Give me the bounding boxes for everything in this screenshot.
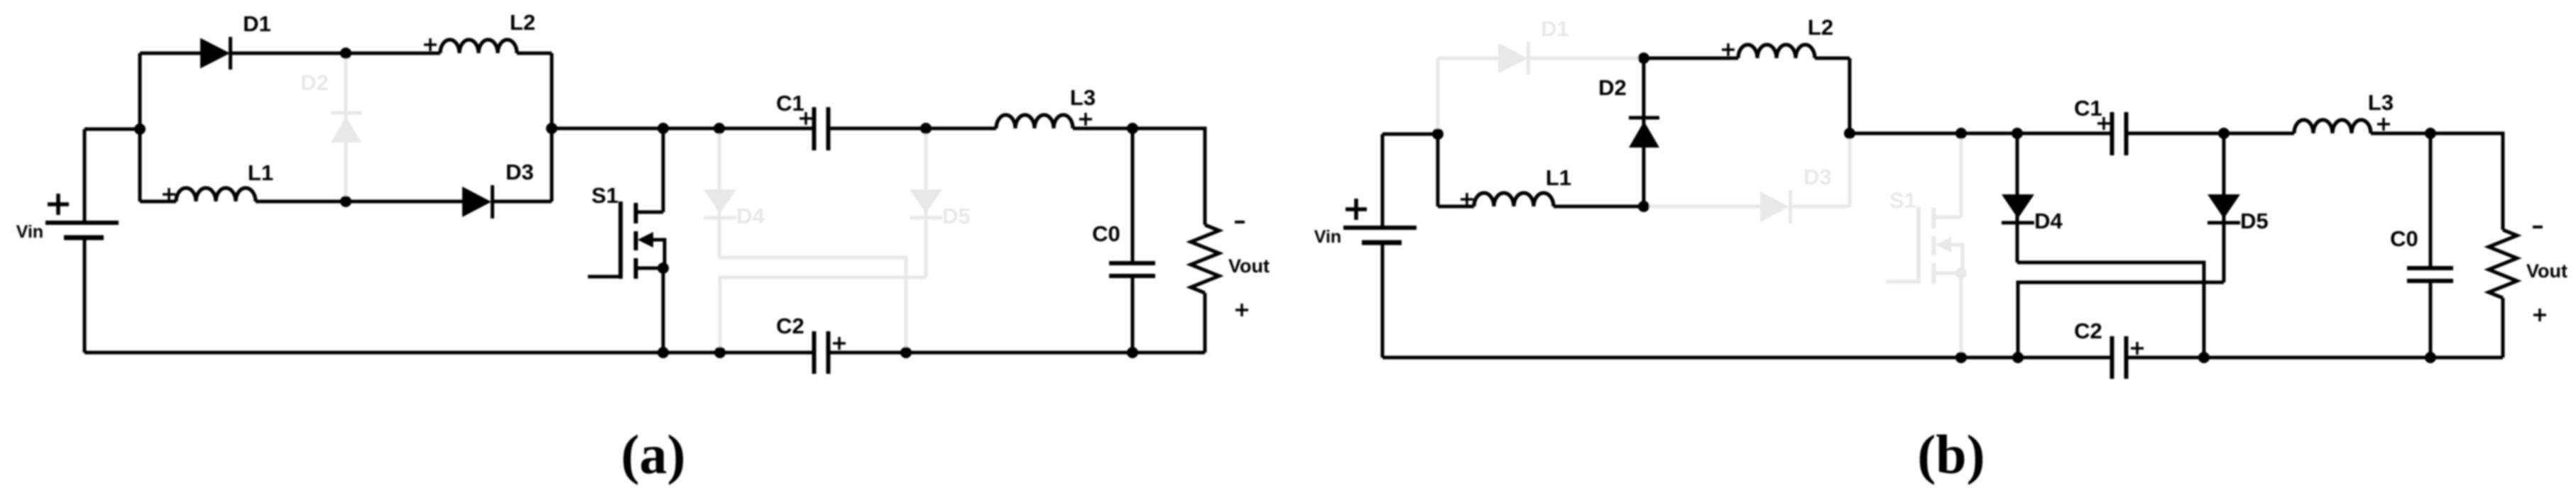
svg-text:D5: D5 — [942, 204, 971, 228]
wire D3 corner up to mid rail — [1848, 133, 1852, 206]
inductor L1 — [176, 188, 256, 201]
svg-text:D3: D3 — [1803, 165, 1832, 189]
wire bottom rail left of C2 — [84, 351, 814, 355]
inductor L1 + polarity mark — [163, 188, 175, 201]
diode D2 — [1629, 116, 1659, 120]
transistor S1 gate lead — [588, 275, 621, 279]
battery Vin — [45, 221, 119, 225]
transistor S1 channel segments — [634, 203, 638, 223]
svg-text:L3: L3 — [1070, 85, 1096, 110]
wire battery positive lead — [83, 129, 87, 223]
inductor L3 — [2294, 120, 2371, 133]
inductor L3 + polarity mark — [1079, 113, 1092, 126]
wire D2 node to L2 — [346, 52, 440, 55]
diode D5 branch vertical — [924, 128, 928, 277]
node S1 bottom — [1955, 352, 1967, 363]
node D5 bottom — [714, 347, 726, 358]
wire D3 corner up to mid rail — [550, 128, 554, 201]
capacitor C2 — [2110, 336, 2114, 379]
capacitor C1 — [2110, 112, 2114, 155]
capacitor C2 + polarity mark — [833, 337, 846, 350]
wire L1 to D2 node — [256, 200, 346, 204]
inductor L2 — [1738, 45, 1815, 58]
diode D1 — [1498, 43, 1528, 74]
svg-text:L1: L1 — [248, 160, 273, 185]
svg-text:L3: L3 — [2368, 90, 2394, 115]
capacitor C0 top lead — [2429, 133, 2433, 268]
transistor S1 drain lead — [1933, 216, 1961, 219]
svg-text:(a): (a) — [621, 423, 686, 485]
wire D4 to bottom rail — [2017, 262, 2204, 358]
svg-text:D1: D1 — [1541, 16, 1569, 41]
wire battery to junction — [84, 128, 140, 131]
transistor S1 channel segments — [1932, 208, 1936, 228]
resistor Vout — [2489, 230, 2517, 298]
svg-text:C1: C1 — [2074, 96, 2102, 121]
wire D5 to bottom rail — [720, 277, 926, 353]
wire L1 to D2 node — [1554, 205, 1644, 209]
node D4 bottom — [2198, 352, 2210, 363]
battery + polarity mark — [1346, 199, 1367, 220]
diode D4 — [704, 189, 736, 214]
diode D3 — [462, 187, 491, 217]
wire C1 to L3 — [829, 127, 997, 131]
diode D4 branch vertical — [718, 128, 721, 257]
node C0 top — [2425, 128, 2436, 139]
wire D3 cathode to corner — [493, 200, 552, 204]
transistor S1 drain vertical — [662, 128, 665, 212]
wire S1 source to bottom rail — [1960, 273, 1963, 358]
transistor S1 drain lead — [635, 211, 663, 214]
wire D2 branch vertical — [344, 53, 348, 201]
wire L2 corner down to mid rail — [550, 53, 554, 128]
capacitor C1 + polarity mark — [799, 112, 812, 125]
svg-text:C2: C2 — [2074, 318, 2102, 343]
transistor S1 gate lead — [1886, 280, 1919, 284]
diode D5 — [910, 189, 942, 214]
wire L1 rail from junction — [140, 200, 176, 204]
node mid rail left — [546, 123, 557, 134]
wire Vout to bottom rail — [2501, 298, 2505, 358]
svg-text:D2: D2 — [300, 70, 329, 95]
capacitor C1 + polarity mark — [2097, 117, 2110, 130]
wire battery positive lead — [1381, 134, 1385, 228]
wire battery to junction — [1382, 133, 1438, 136]
svg-text:C0: C0 — [2390, 226, 2418, 251]
wire junction down to L1 rail — [1436, 134, 1440, 206]
wire bottom rail right of C2 — [829, 351, 1206, 355]
node C0 bottom — [1127, 347, 1138, 358]
svg-text:Vout: Vout — [1228, 255, 1270, 277]
circuit (a): converter state 1 — [16, 10, 1270, 485]
wire battery negative lead — [1381, 243, 1385, 358]
svg-text:C1: C1 — [776, 91, 804, 116]
node S1 drain branch — [1955, 128, 1967, 139]
svg-text:S1: S1 — [591, 183, 618, 208]
node S1 source — [657, 262, 669, 274]
svg-text:L2: L2 — [510, 10, 535, 35]
wire L2 to corner — [517, 52, 552, 55]
wire Vout to bottom rail — [1204, 293, 1207, 353]
node D4 bottom — [900, 347, 912, 358]
node bottom of D2 branch — [340, 196, 351, 207]
svg-text:D3: D3 — [506, 160, 534, 184]
wire S1 source to bottom rail — [662, 268, 665, 353]
svg-text:L2: L2 — [1808, 15, 1833, 40]
node D4 branch top — [714, 123, 725, 134]
node mid rail left — [1844, 128, 1855, 139]
Vout - polarity mark — [1235, 221, 1245, 223]
svg-text:C0: C0 — [1092, 221, 1120, 246]
svg-text:(b): (b) — [1917, 423, 1985, 485]
battery + polarity mark — [48, 194, 69, 215]
transistor S1 gate bar — [1916, 206, 1921, 284]
wire L1 rail from junction — [1438, 205, 1474, 209]
inductor L1 — [1474, 193, 1554, 206]
transistor S1 body arrow — [1936, 237, 1951, 253]
circuit (b): converter state 2 — [1314, 15, 2567, 485]
node S1 source — [1955, 267, 1967, 279]
svg-text:Vin: Vin — [1314, 227, 1341, 247]
battery Vin short plate — [64, 236, 104, 240]
svg-text:D1: D1 — [243, 11, 271, 36]
wire D2 node to D3 anode — [346, 200, 462, 204]
wire L2 to corner — [1815, 57, 1850, 60]
node C0 top — [1127, 123, 1138, 134]
node S1 drain branch — [657, 123, 669, 134]
wire bottom rail left of C2 — [1382, 356, 2112, 360]
Vout - polarity mark — [2533, 226, 2543, 228]
wire mid rail to C1 — [1850, 132, 2112, 135]
diode D1 — [200, 38, 230, 69]
svg-text:D2: D2 — [1598, 75, 1627, 100]
wire D1 cathode to D2 node — [1529, 57, 1644, 60]
wire top rail to D1 anode — [140, 52, 200, 55]
inductor L3 + polarity mark — [2377, 118, 2390, 131]
capacitor C0 bottom lead — [1131, 276, 1135, 353]
wire top rail to D1 anode — [1438, 57, 1498, 60]
node bottom of D2 branch — [1638, 201, 1649, 212]
wire L2 corner down to mid rail — [1848, 58, 1852, 133]
capacitor C0 bottom lead — [2429, 281, 2433, 358]
diode D5 — [2207, 194, 2240, 218]
inductor L2 + polarity mark — [424, 38, 437, 51]
wire D5 to bottom rail — [2018, 282, 2224, 358]
inductor L3 — [996, 115, 1073, 128]
wire mid rail to C1 — [552, 127, 814, 131]
transistor S1 source lead — [635, 267, 663, 270]
resistor Vout — [1191, 225, 1219, 293]
transistor S1 drain vertical — [1960, 133, 1963, 217]
svg-text:D5: D5 — [2240, 209, 2269, 233]
transistor S1 gate bar — [618, 201, 623, 279]
svg-text:Vin: Vin — [16, 222, 43, 242]
node D4 branch top — [2012, 128, 2023, 139]
node top of D2 branch — [1638, 52, 1649, 64]
wire junction down to L1 rail — [138, 129, 142, 201]
svg-text:S1: S1 — [1889, 188, 1916, 213]
diode D2 — [331, 111, 361, 115]
capacitor C2 + polarity mark — [2131, 342, 2144, 355]
wire L3 to output corner — [1073, 128, 1205, 225]
wire D4 to bottom rail — [719, 257, 906, 353]
wire D3 cathode to corner — [1791, 205, 1850, 209]
node top of D2 branch — [340, 48, 351, 59]
Vout + polarity mark — [2533, 309, 2546, 321]
capacitor C2 — [812, 331, 817, 374]
wire L3 to output corner — [2371, 133, 2503, 230]
battery Vin — [1343, 226, 1417, 230]
wire D2 node to L2 — [1644, 57, 1738, 60]
diode D5 branch vertical — [2222, 133, 2226, 282]
inductor L1 + polarity mark — [1461, 193, 1473, 206]
wire C1 to L3 — [2127, 132, 2295, 135]
svg-text:L1: L1 — [1546, 165, 1571, 190]
capacitor C1 — [812, 107, 817, 150]
wire junction up to top rail — [138, 53, 142, 129]
capacitor C0 — [1109, 261, 1155, 265]
node junction at battery branch — [134, 123, 146, 135]
svg-text:D4: D4 — [736, 204, 765, 228]
diode D4 branch vertical — [2016, 133, 2019, 262]
wire D1 cathode to D2 node — [231, 52, 346, 55]
Vout + polarity mark — [1235, 304, 1248, 316]
wire D2 branch vertical — [1642, 58, 1646, 206]
node D5 branch top — [2218, 128, 2230, 139]
transistor S1 source lead — [1933, 272, 1961, 275]
diode D3 — [1760, 192, 1789, 222]
node junction at battery branch — [1432, 128, 1443, 140]
wire bottom rail right of C2 — [2127, 356, 2504, 360]
node C0 bottom — [2425, 352, 2436, 363]
wire battery negative lead — [83, 238, 87, 353]
capacitor C0 — [2407, 266, 2453, 270]
node D5 bottom — [2012, 352, 2024, 363]
transistor S1 body arrow — [638, 232, 653, 248]
node S1 bottom — [657, 347, 669, 358]
svg-text:Vout: Vout — [2526, 260, 2567, 282]
inductor L2 + polarity mark — [1722, 43, 1735, 56]
svg-text:D4: D4 — [2034, 209, 2063, 233]
battery Vin short plate — [1362, 240, 1402, 245]
inductor L2 — [440, 40, 517, 53]
wire junction up to top rail — [1436, 58, 1440, 134]
capacitor C0 top lead — [1131, 128, 1135, 263]
diode D4 — [2002, 194, 2034, 218]
wire D2 node to D3 anode — [1644, 205, 1760, 209]
svg-text:C2: C2 — [776, 314, 804, 338]
node D5 branch top — [920, 123, 932, 134]
